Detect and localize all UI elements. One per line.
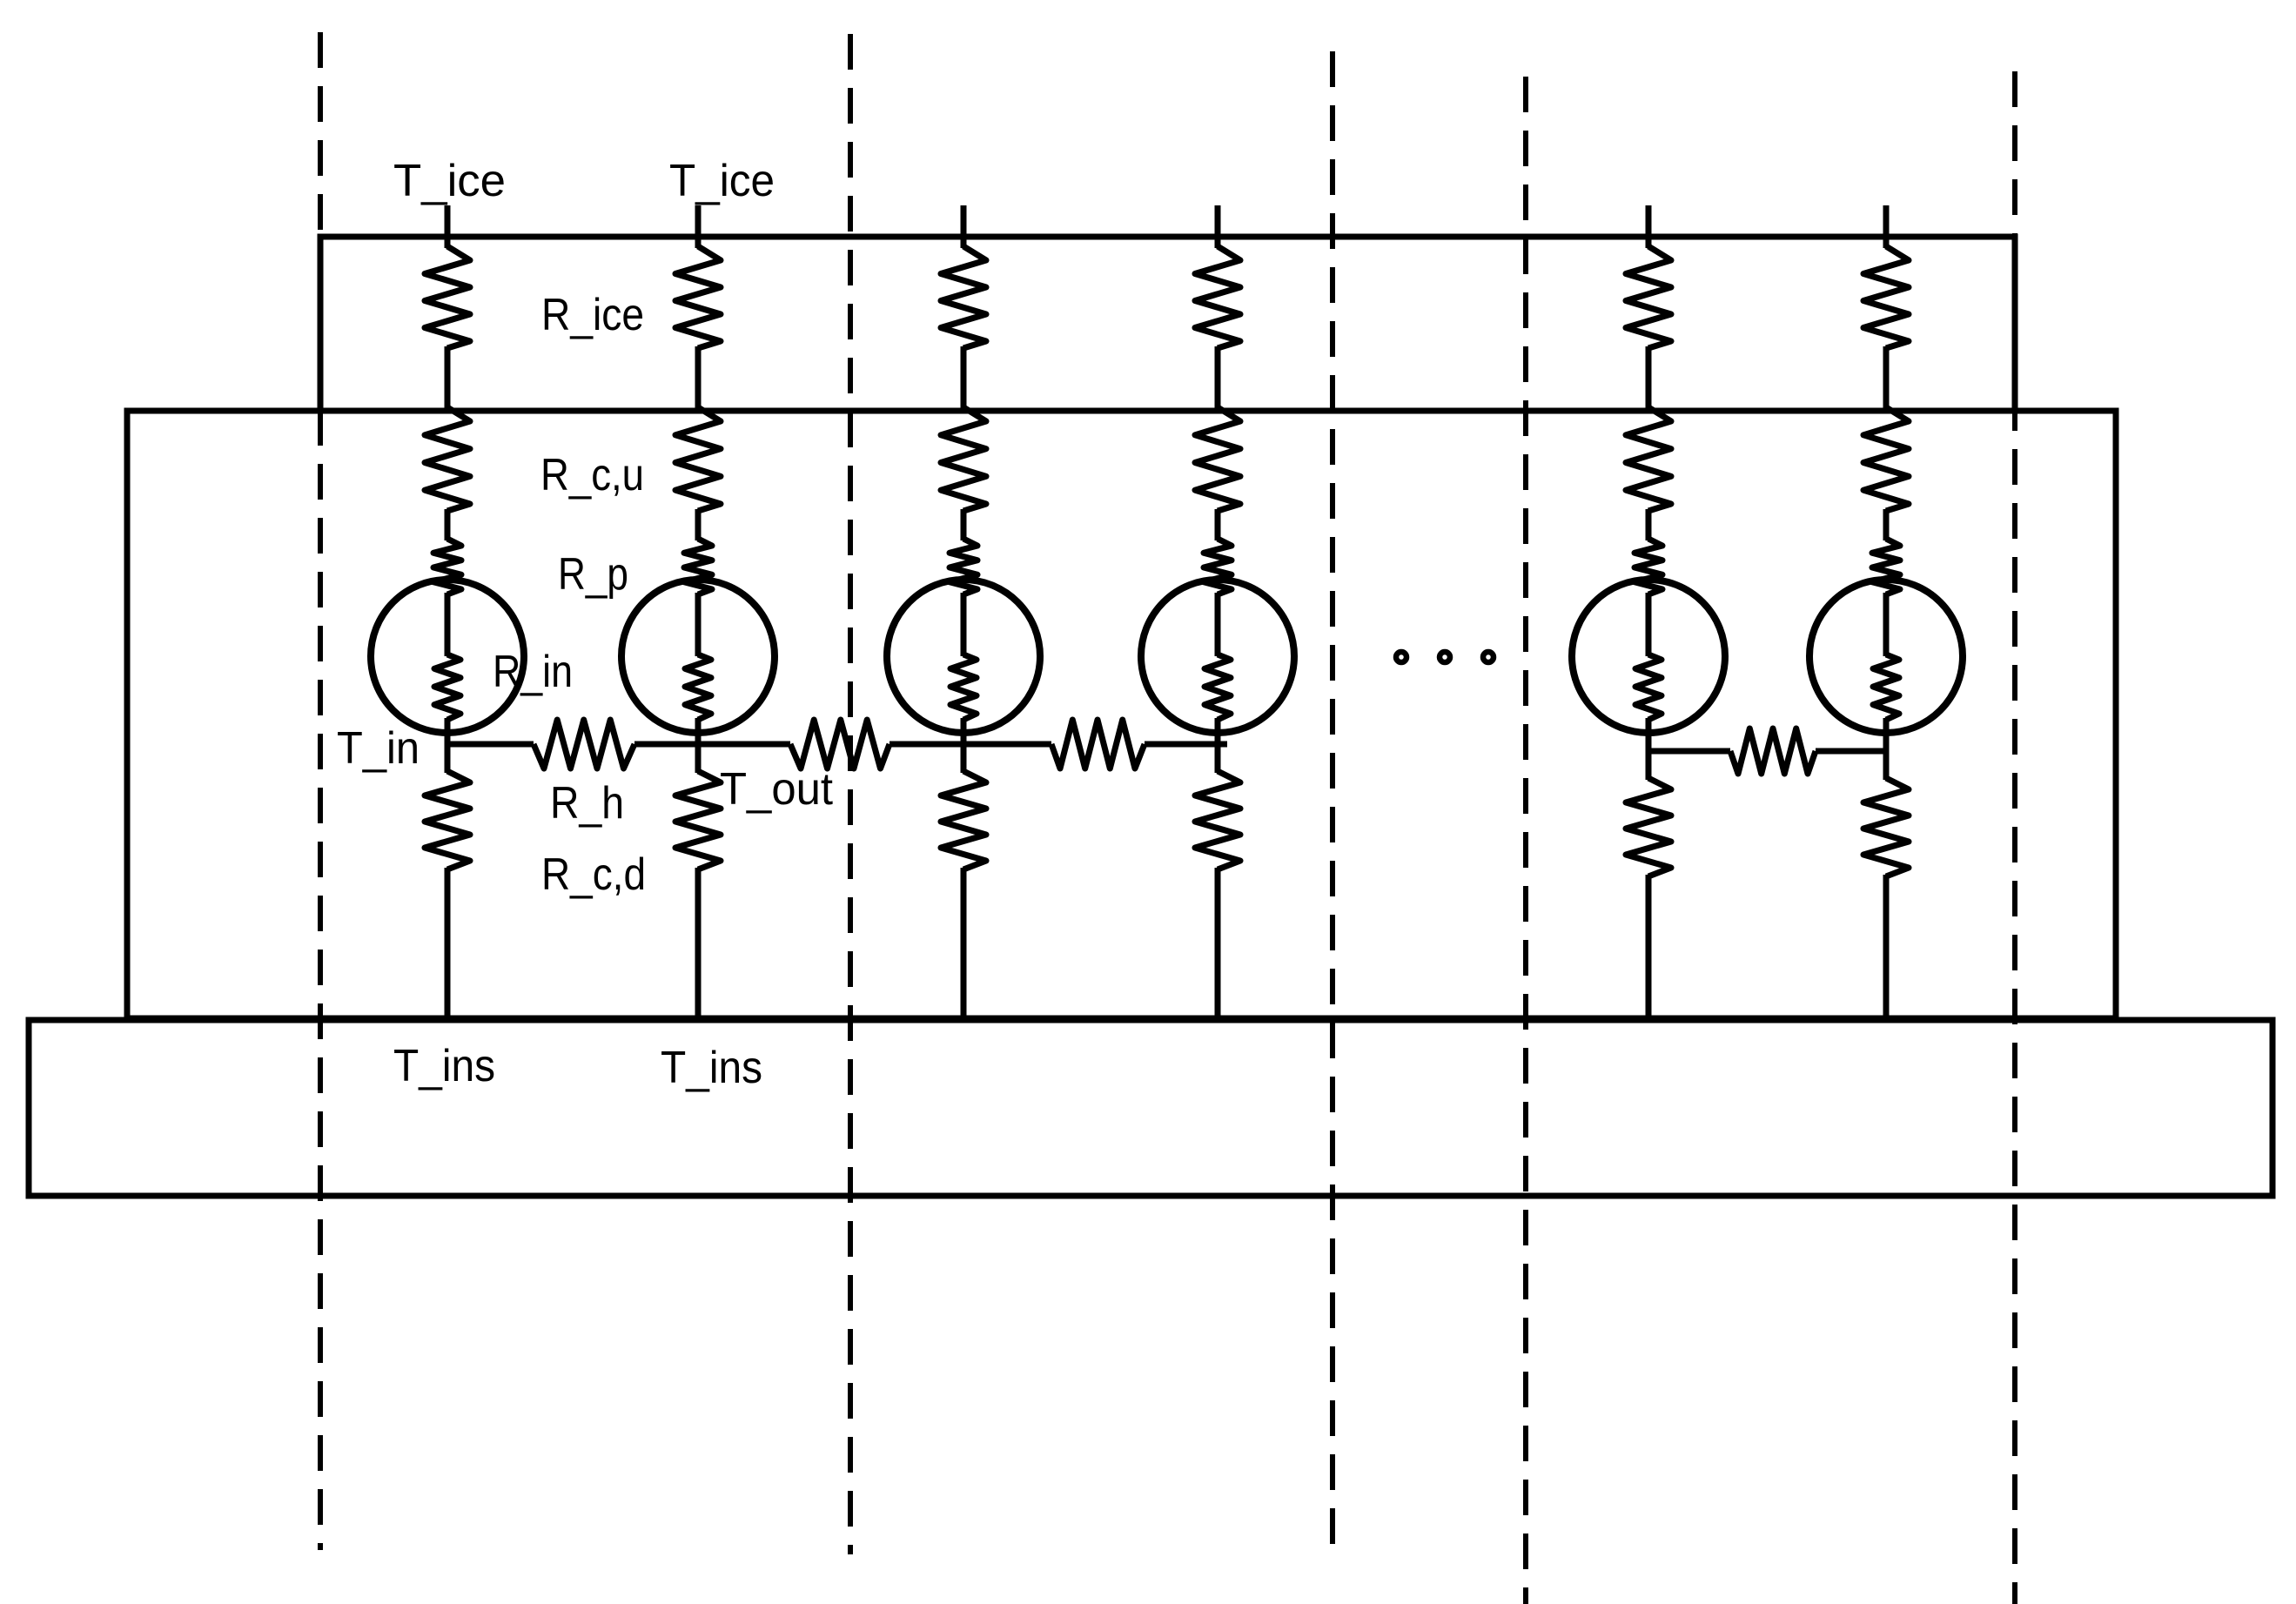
svg-text:T_in: T_in (337, 723, 420, 774)
svg-text:R_c,u: R_c,u (540, 450, 644, 500)
svg-text:T_out: T_out (720, 764, 834, 815)
svg-text:R_h: R_h (550, 778, 624, 829)
svg-text:R_p: R_p (558, 549, 628, 600)
svg-text:T_ins: T_ins (393, 1041, 495, 1091)
svg-text:R_ice: R_ice (541, 290, 644, 340)
svg-text:R_c,d: R_c,d (541, 849, 646, 900)
svg-text:T_ice: T_ice (393, 156, 506, 206)
svg-text:T_ins: T_ins (661, 1043, 762, 1093)
svg-text:R_in: R_in (493, 647, 573, 697)
svg-text:T_ice: T_ice (669, 156, 775, 206)
